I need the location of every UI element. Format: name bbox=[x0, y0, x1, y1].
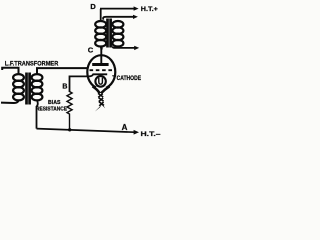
tube V1 heater bbox=[99, 78, 103, 85]
svg-text:H.T.–: H.T.– bbox=[141, 131, 161, 138]
tube V1 grid (dashed) bbox=[90, 69, 113, 71]
transformer T2 core bbox=[106, 19, 109, 48]
svg-text:CATHODE: CATHODE bbox=[117, 76, 142, 82]
svg-text:BIAS: BIAS bbox=[48, 100, 61, 106]
wire: twisted heater leads bbox=[98, 93, 103, 97]
node: junction of bias resistor and bus bbox=[68, 128, 71, 131]
svg-text:L.F.TRANSFORMER: L.F.TRANSFORMER bbox=[5, 60, 59, 67]
wire: T2 primary top to H.T.+ bbox=[100, 9, 134, 22]
transformer T2 primary winding bbox=[95, 21, 106, 47]
svg-text:B: B bbox=[62, 84, 67, 91]
resistor: bias resistance bbox=[67, 92, 72, 130]
wire: secondary bottom lead down to bus bbox=[37, 100, 38, 128]
label CATHODE with leader bbox=[112, 75, 116, 78]
tube V1 envelope bbox=[87, 55, 115, 89]
wire: cathode lead to bias resistor bbox=[70, 76, 89, 92]
wire: input bottom lead bbox=[1, 100, 19, 103]
wire: input top lead bbox=[2, 68, 18, 74]
wire: grid lead to tube bbox=[37, 68, 88, 74]
wire: T2 secondary top lead with arrow bbox=[103, 17, 133, 20]
transformer T1 primary winding bbox=[13, 74, 24, 100]
tube V1 anode plate bbox=[92, 63, 108, 66]
wire: T2 secondary bottom lead with arrow bbox=[113, 47, 135, 48]
transformer T2 secondary winding bbox=[112, 21, 123, 47]
svg-text:D: D bbox=[90, 2, 96, 11]
transformer T1 secondary winding bbox=[32, 74, 43, 100]
transformer T1 core bbox=[25, 73, 28, 105]
tube V1 cathode bbox=[89, 74, 108, 76]
wire: H.T.- bus bbox=[37, 129, 135, 133]
svg-text:A: A bbox=[122, 123, 128, 132]
arrow on H.T.+ wire bbox=[134, 6, 139, 10]
tube V1 envelope bottom pinch bbox=[93, 86, 100, 93]
svg-text:H.T.+: H.T.+ bbox=[141, 6, 158, 13]
svg-text:RESISTANCE: RESISTANCE bbox=[36, 106, 67, 112]
wire: T2 primary bottom to anode bbox=[101, 46, 102, 49]
arrow A on H.T.- bus bbox=[134, 130, 139, 135]
svg-text:C: C bbox=[88, 46, 94, 55]
wire: anode lead to transformer T2 bbox=[100, 46, 103, 63]
